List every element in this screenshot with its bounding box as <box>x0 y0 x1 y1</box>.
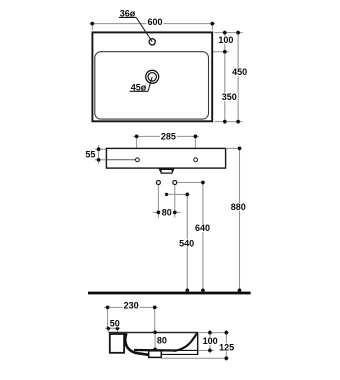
svg-text:600: 600 <box>147 17 162 27</box>
svg-text:285: 285 <box>161 132 176 142</box>
svg-text:36ø: 36ø <box>120 8 136 18</box>
svg-text:350: 350 <box>222 92 237 102</box>
svg-text:230: 230 <box>124 301 139 311</box>
svg-text:100: 100 <box>203 336 218 346</box>
svg-text:880: 880 <box>231 202 246 212</box>
svg-text:450: 450 <box>232 67 247 77</box>
svg-text:45ø: 45ø <box>131 82 147 92</box>
svg-text:540: 540 <box>179 238 194 248</box>
svg-text:100: 100 <box>218 35 233 45</box>
svg-text:50: 50 <box>110 318 120 328</box>
svg-text:125: 125 <box>219 342 234 352</box>
svg-text:80: 80 <box>157 336 167 346</box>
svg-text:55: 55 <box>85 149 95 159</box>
svg-text:640: 640 <box>195 223 210 233</box>
svg-text:80: 80 <box>162 207 172 217</box>
